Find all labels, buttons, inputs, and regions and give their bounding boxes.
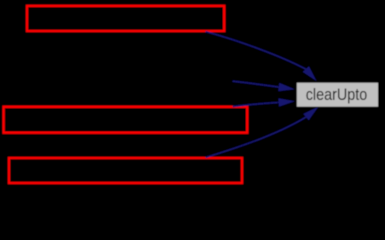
svg-text:clearUpto: clearUpto <box>306 86 368 104</box>
